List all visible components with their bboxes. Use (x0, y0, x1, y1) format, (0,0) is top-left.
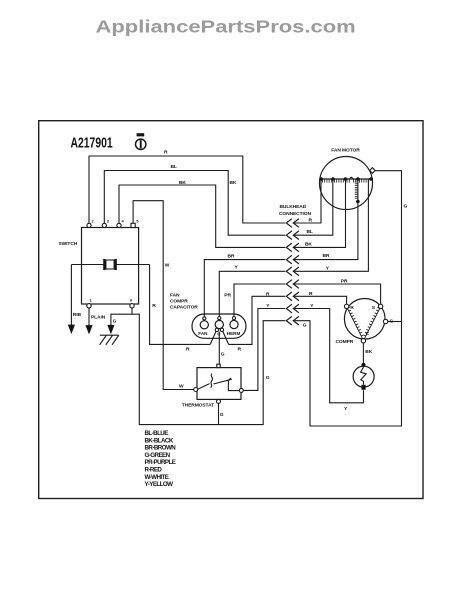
overload top terminal (361, 363, 365, 367)
overload internal element (361, 367, 367, 385)
wire R bulkhead to fan motor (293, 180, 321, 224)
svg-text:G: G (404, 204, 408, 210)
switch pin 1 terminal bottom-left (87, 298, 93, 308)
svg-text:COMPR: COMPR (170, 299, 188, 305)
cord conductor G arrow (107, 314, 116, 335)
switch pin 5 terminal (131, 219, 139, 228)
svg-text:CONNECTION: CONNECTION (279, 211, 311, 217)
svg-text:PR-PURPLE: PR-PURPLE (145, 459, 176, 466)
capacitor C terminal (215, 317, 223, 337)
svg-text:BR: BR (228, 253, 235, 259)
bulkhead connector row4 BR (286, 255, 299, 264)
wire PR bulkhead to compressor S (293, 284, 380, 304)
svg-text:G: G (220, 412, 224, 418)
wire BK compressor C to overload (362, 343, 364, 363)
svg-text:R-RED: R-RED (145, 467, 163, 474)
fan motor start coil (357, 179, 359, 202)
compressor S terminal (372, 304, 383, 311)
power symbol P1 (136, 133, 146, 149)
svg-text:G: G (390, 319, 394, 325)
svg-text:BK: BK (179, 180, 186, 186)
wire Y capacitor common to bulkhead (219, 271, 285, 316)
svg-text:R: R (164, 150, 168, 156)
svg-text:BK-BLACK: BK-BLACK (145, 437, 174, 444)
svg-text:BR-BROWN: BR-BROWN (145, 445, 177, 452)
compressor run winding (347, 307, 363, 339)
svg-text:4: 4 (122, 219, 125, 224)
svg-text:5: 5 (136, 219, 139, 224)
wire G cord to thermostat bottom and bulkhead (111, 314, 285, 424)
fan motor ground lug diamond (370, 168, 376, 174)
svg-text:3: 3 (107, 219, 110, 224)
compressor R terminal (344, 304, 354, 311)
svg-text:W: W (165, 263, 170, 269)
wire diagonals capacitor common to R bus (210, 331, 228, 344)
svg-text:THERMOSTAT: THERMOSTAT (182, 403, 214, 409)
svg-text:G: G (113, 319, 117, 325)
svg-text:COMPR: COMPR (336, 339, 354, 345)
bulkhead connector row9 G (286, 316, 299, 325)
bulkhead connector row6 PR (286, 280, 299, 289)
fan motor winding hatches (323, 179, 369, 182)
overload protector OL1 body (353, 366, 374, 387)
svg-text:R: R (238, 347, 242, 353)
wire Y thermostat right to bulkhead (243, 309, 285, 391)
svg-text:BL: BL (171, 164, 177, 170)
svg-text:R: R (266, 292, 270, 298)
compressor M2 body (344, 299, 385, 340)
wire BL bulkhead to fan motor (293, 180, 332, 235)
svg-text:G: G (303, 323, 307, 329)
fan motor tap terminal dots (319, 177, 372, 181)
capacitor HERM terminal (227, 317, 241, 336)
svg-text:R: R (309, 291, 313, 297)
wire Y bulkhead to overload bottom (293, 309, 363, 403)
wire BR bulkhead to fan start winding (293, 202, 358, 260)
switch pin 6 terminal bottom-right (130, 298, 134, 308)
frame border (39, 121, 423, 499)
svg-text:G: G (221, 352, 225, 358)
svg-text:RIB: RIB (73, 312, 82, 318)
svg-text:BL-BLUE: BL-BLUE (145, 430, 169, 437)
thermostat left terminal (194, 388, 198, 392)
svg-text:G: G (266, 375, 270, 381)
svg-text:Y: Y (235, 264, 239, 270)
svg-text:HERM: HERM (227, 331, 241, 336)
svg-text:FAN: FAN (170, 293, 180, 299)
svg-text:FAN: FAN (198, 331, 208, 336)
svg-text:FAN MOTOR: FAN MOTOR (331, 148, 360, 154)
bulkhead connector row1 R (286, 219, 299, 228)
wire W from switch pin5 to thermostat left (133, 201, 194, 390)
thermostat top terminal (217, 364, 220, 367)
switch S1 box (82, 228, 139, 305)
svg-text:W-WHITE: W-WHITE (145, 474, 169, 481)
svg-text:BK: BK (365, 349, 372, 355)
thermostat internal contacts (198, 378, 240, 391)
capacitor common bottom lugs (215, 328, 223, 331)
bulkhead connector row2 BL (286, 231, 299, 240)
overload bottom terminal (361, 385, 365, 390)
svg-text:S: S (372, 305, 376, 311)
wire PR capacitor HERM to bulkhead (234, 284, 285, 316)
svg-text:R: R (152, 303, 156, 309)
switch pin 2 terminal (87, 219, 95, 228)
compressor G terminal (383, 319, 387, 323)
wire G compressor to riser (388, 321, 402, 323)
svg-text:R: R (186, 347, 190, 353)
svg-text:BK: BK (305, 242, 312, 248)
wire BL from switch pin3 to bulkhead (104, 171, 285, 236)
wire BK from switch pin4 to bulkhead (119, 185, 285, 247)
svg-text:W: W (179, 383, 184, 389)
svg-text:Y: Y (310, 303, 314, 309)
svg-text:BL: BL (307, 229, 313, 235)
thermostat TH1 box (197, 368, 241, 400)
svg-text:Y: Y (326, 265, 330, 271)
svg-text:AppliancePartsPros.com: AppliancePartsPros.com (96, 17, 356, 37)
fan motor winding line (319, 178, 373, 180)
switch pin 3 terminal (102, 219, 110, 228)
switch pin 4 terminal (117, 219, 125, 228)
svg-text:A217901: A217901 (71, 135, 113, 151)
svg-text:Y: Y (344, 406, 348, 412)
bulkhead connector row3 BK (286, 243, 299, 252)
svg-text:CAPACITOR: CAPACITOR (170, 305, 198, 311)
wire R line from switch pin2 to bulkhead (89, 156, 285, 223)
svg-text:Y: Y (266, 303, 270, 309)
capacitor FAN terminal (198, 317, 208, 336)
cord conductor PLAIN arrow (85, 308, 105, 335)
svg-text:PR: PR (341, 279, 348, 285)
bulkhead connector row8 Y (286, 304, 299, 313)
wire G thermostat bottom drop (218, 403, 220, 424)
wire BK bulkhead to fan motor (293, 180, 345, 247)
thermostat right terminal (239, 388, 243, 392)
capacitor C1 body (192, 314, 246, 338)
fan motor M1 body (320, 157, 373, 210)
fan motor protector loop (350, 177, 353, 179)
wire R bulkhead to compressor R (293, 296, 346, 304)
svg-text:6: 6 (130, 298, 133, 303)
thermostat bottom terminal (217, 399, 221, 403)
svg-text:G-GREEN: G-GREEN (145, 452, 171, 459)
compressor C terminal (361, 331, 369, 343)
svg-text:2: 2 (92, 219, 95, 224)
wire BR capacitor FAN to bulkhead (204, 260, 285, 317)
wire Y bulkhead to fan motor common (293, 180, 368, 271)
svg-text:PLAIN: PLAIN (91, 314, 106, 320)
bulkhead connector row5 Y (286, 267, 299, 276)
svg-text:BULKHEAD: BULKHEAD (280, 204, 307, 210)
bulkhead connector row7 R (286, 292, 299, 301)
wire G capacitor to thermostat top (218, 332, 220, 365)
svg-text:1: 1 (90, 298, 93, 303)
svg-text:BK: BK (230, 180, 237, 186)
svg-text:Y-YELLOW: Y-YELLOW (145, 481, 174, 488)
fan motor coil bottom dot (356, 200, 360, 204)
thermostat sensor squiggle (211, 374, 213, 388)
cord conductor RIB arrow (68, 265, 82, 335)
wire R switch lead riser to capacitor common (150, 265, 286, 345)
wire G switch terminal tail (131, 308, 133, 314)
svg-text:PR: PR (224, 293, 231, 299)
ground symbol (100, 335, 119, 345)
svg-text:SWITCH: SWITCH (59, 241, 78, 247)
wire G bulkhead to compressor and fan frame (293, 171, 401, 426)
legend wire colors (145, 430, 177, 488)
svg-text:BR: BR (323, 253, 330, 259)
svg-text:R: R (309, 217, 313, 223)
compressor start winding (364, 307, 380, 339)
switch internal interlock component (71, 259, 149, 270)
